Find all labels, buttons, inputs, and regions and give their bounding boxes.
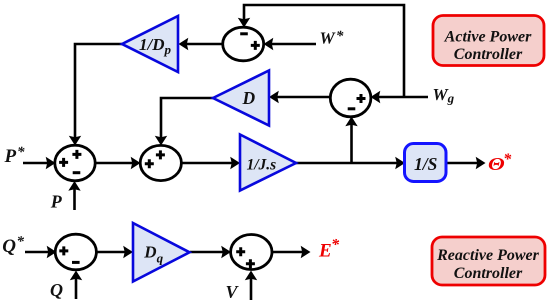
- svg-text:*: *: [336, 28, 344, 44]
- svg-text:W: W: [320, 29, 337, 48]
- svg-text:1/S: 1/S: [414, 154, 437, 174]
- svg-text:V: V: [226, 282, 240, 302]
- svg-text:Q: Q: [50, 280, 63, 300]
- svg-text:*: *: [331, 237, 340, 254]
- svg-text:P: P: [50, 191, 63, 211]
- svg-text:*: *: [17, 234, 25, 250]
- svg-text:Reactive Power: Reactive Power: [436, 247, 540, 264]
- svg-text:Controller: Controller: [454, 46, 523, 63]
- svg-text:Active Power: Active Power: [444, 29, 532, 46]
- svg-text:E: E: [318, 241, 332, 262]
- svg-text:Q: Q: [2, 236, 16, 257]
- svg-text:D: D: [242, 88, 256, 108]
- svg-text:*: *: [17, 145, 25, 161]
- svg-text:Controller: Controller: [454, 265, 523, 282]
- svg-text:*: *: [503, 151, 512, 168]
- svg-text:Wg: Wg: [433, 85, 455, 106]
- svg-text:P: P: [4, 146, 17, 167]
- svg-text:1/J.s: 1/J.s: [247, 157, 277, 174]
